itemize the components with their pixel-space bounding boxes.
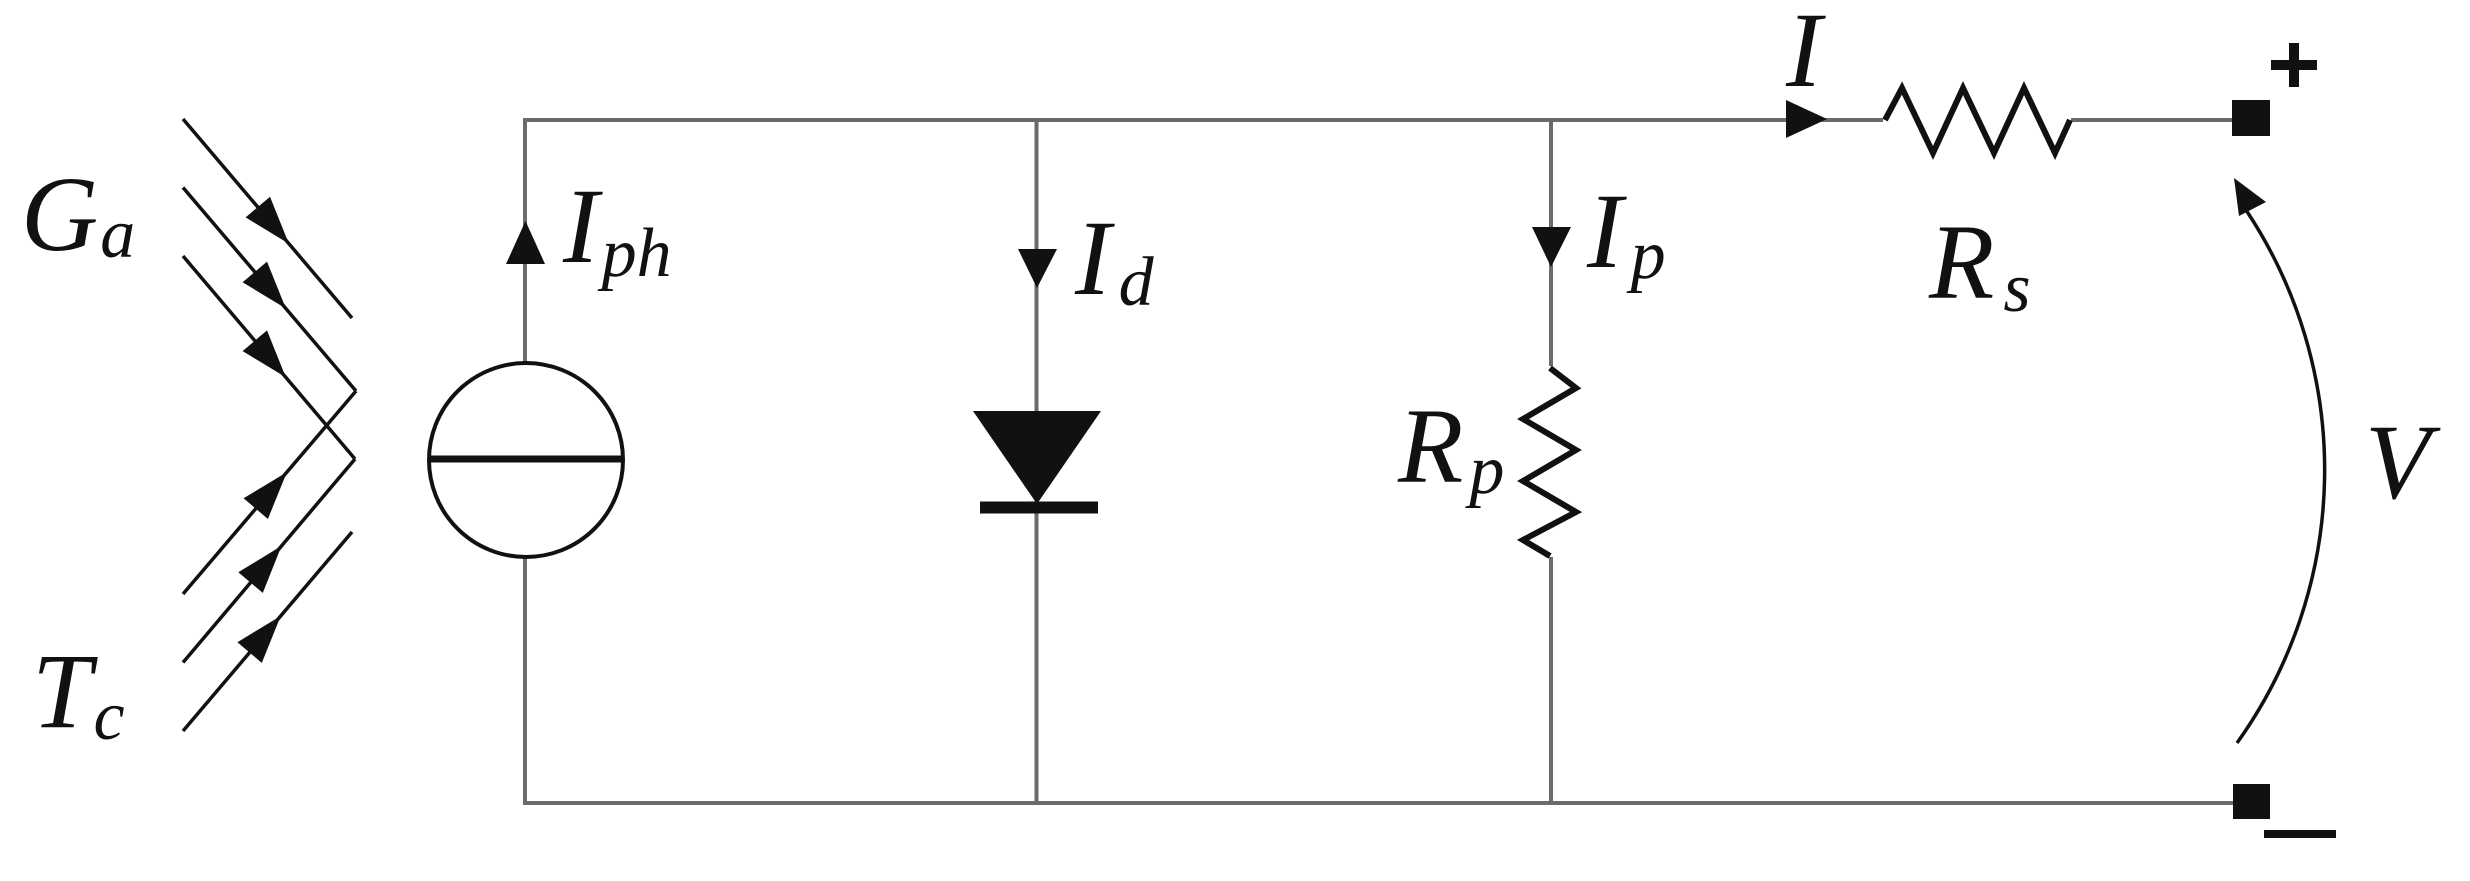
wire bottom horizontal [523,801,2233,805]
ray G1 [183,119,352,318]
svg-text:V: V [2365,404,2441,522]
arrow I (right) on top wire [1786,100,1827,138]
ray T2 [183,459,355,663]
ray T1 arrowhead [244,472,287,519]
ray T2 arrowhead [238,546,281,593]
arrow Iph (up) [506,221,545,264]
svg-text:I: I [1785,0,1826,110]
terminal square plus [2232,100,2270,136]
ray G3 arrowhead [243,330,286,377]
terminal square minus [2233,784,2270,819]
V arrowhead [2234,178,2266,216]
wire top horizontal right segment [2071,118,2233,122]
ray G2 arrowhead [243,262,286,309]
current source U1 bar [428,456,624,463]
resistor Rs zigzag [1885,88,2070,153]
wire left vertical lower [523,558,527,805]
resistor Rp zigzag [1523,368,1576,556]
ray G3 [183,256,355,459]
ray T1 [183,391,356,594]
wire left vertical upper [523,118,527,362]
arrow Ip (down) [1532,227,1571,267]
wire Rp branch upper [1549,118,1553,366]
ray T3 [183,532,352,731]
ray T3 arrowhead [237,616,280,663]
ray G2 [183,188,356,392]
minus sign [2264,830,2336,838]
wire Rp branch lower [1549,557,1553,803]
wire diode branch vertical [1035,118,1039,803]
ray G1 arrowhead [246,197,289,244]
plus sign [2271,43,2317,87]
diode D1 cathode bar [980,502,1098,514]
current source U1 circle [429,363,623,557]
arrow Id (down) [1018,249,1057,288]
wire top horizontal left segment [523,118,1883,122]
V measurement arc [2237,210,2325,743]
diode D1 triangle [973,411,1101,504]
